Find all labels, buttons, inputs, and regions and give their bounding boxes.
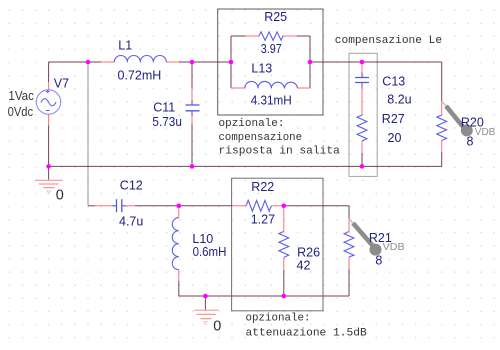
svg-text:20: 20 (388, 131, 402, 145)
svg-text:0Vdc: 0Vdc (8, 105, 33, 119)
svg-text:42: 42 (297, 259, 311, 273)
svg-text:0.72mH: 0.72mH (118, 69, 162, 83)
svg-text:8: 8 (375, 254, 382, 268)
svg-text:4.31mH: 4.31mH (251, 93, 292, 107)
svg-text:R25: R25 (264, 10, 287, 24)
svg-text:risposta in salita: risposta in salita (219, 146, 341, 158)
svg-text:L13: L13 (251, 62, 272, 76)
svg-text:opzionale:: opzionale: (246, 313, 311, 325)
svg-text:1Vac: 1Vac (8, 89, 34, 103)
svg-text:R26: R26 (297, 246, 320, 260)
svg-text:8.2u: 8.2u (387, 92, 411, 106)
svg-text:C13: C13 (382, 75, 405, 89)
svg-text:1.27: 1.27 (251, 213, 275, 227)
svg-text:0: 0 (56, 188, 64, 204)
svg-text:5.73u: 5.73u (152, 115, 182, 129)
svg-text:0.6mH: 0.6mH (193, 245, 227, 259)
svg-text:L10: L10 (192, 232, 213, 246)
svg-text:attenuazione 1.5dB: attenuazione 1.5dB (246, 327, 368, 339)
svg-text:8: 8 (467, 135, 474, 149)
svg-text:compensazione: compensazione (219, 132, 303, 144)
svg-text:compensazione Le: compensazione Le (335, 35, 442, 47)
svg-text:C12: C12 (120, 179, 143, 193)
svg-text:3.97: 3.97 (261, 42, 282, 56)
svg-text:R27: R27 (382, 112, 405, 126)
svg-text:0: 0 (213, 318, 221, 334)
svg-text:4.7u: 4.7u (119, 214, 143, 228)
svg-text:V7: V7 (54, 76, 69, 90)
svg-text:VDB: VDB (475, 127, 496, 138)
svg-text:R22: R22 (251, 180, 274, 194)
svg-text:C11: C11 (153, 101, 175, 115)
svg-text:opzionale:: opzionale: (219, 118, 285, 130)
svg-text:L1: L1 (118, 38, 132, 52)
svg-text:VDB: VDB (383, 242, 405, 253)
